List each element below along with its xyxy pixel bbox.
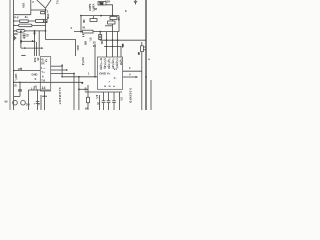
- capacitor C9: [112, 92, 116, 110]
- resistor R7: [108, 21, 115, 24]
- wire mid-left vertical: [20, 31, 22, 48]
- svg-text:38: 38: [36, 58, 40, 61]
- node mid 73.5: [73, 73, 75, 75]
- wire vertical x88: [87, 85, 89, 97]
- wire mid rail 70 left: [14, 69, 41, 71]
- node rail82 end: [81, 82, 83, 84]
- svg-text:120¾: 120¾: [14, 74, 18, 81]
- wire vertical x151: [150, 80, 152, 110]
- node bus x117.5: [117, 39, 119, 41]
- svg-text:2E: 2E: [100, 41, 104, 44]
- capacitor C1: [13, 36, 16, 40]
- diode D1: [41, 12, 45, 14]
- border left outer line: [9, 0, 11, 110]
- capacitor C8: [107, 92, 111, 110]
- resistor R8: [83, 30, 94, 33]
- resistor R9: [87, 97, 90, 102]
- transistor Q1: [13, 100, 18, 105]
- svg-text:14: 14: [42, 86, 46, 90]
- svg-text:Y-: Y-: [114, 76, 117, 80]
- svg-text:25: 25: [25, 34, 29, 37]
- wire bottom rail 82: [14, 81, 83, 83]
- svg-text:2E: 2E: [97, 102, 100, 106]
- node bus x112: [112, 39, 114, 41]
- wire stub mark55: [21, 54, 25, 56]
- resistor R3: [19, 24, 33, 27]
- svg-text:o&: o&: [117, 17, 121, 21]
- wire bus right: [100, 39, 145, 42]
- svg-text:W8: W8: [84, 41, 88, 46]
- svg-text:GND V+: GND V+: [99, 72, 111, 76]
- svg-text:¶¾§¶8¾: ¶¾§¶8¾: [115, 58, 119, 69]
- wire pin x112: [112, 32, 114, 57]
- svg-text:30: 30: [93, 41, 96, 45]
- resistor R6: [110, 16, 117, 19]
- node pot wiper: [34, 30, 36, 32]
- node x20 bottom rail: [19, 82, 21, 84]
- node row3 x45.5: [45, 30, 47, 32]
- node U2 lead junction: [44, 95, 46, 97]
- wire bottom-left stub: [14, 95, 20, 97]
- capacitor C4: [36, 102, 40, 104]
- wire mid-left branch: [21, 40, 35, 42]
- wire tick b: [82, 36, 84, 38]
- wire vertical x112.5 lower: [112, 16, 114, 32]
- wire mid rail 70 right: [51, 69, 67, 71]
- svg-text:S: S: [35, 77, 37, 81]
- node x81 top: [80, 15, 82, 17]
- wire rail 31.6 right: [74, 31, 119, 33]
- wire stub x21: [20, 68, 22, 71]
- wire vertical x34: [34, 31, 36, 56]
- resistor R4: [98, 2, 106, 5]
- svg-text:L R L: L R L: [31, 87, 38, 91]
- wire bottom rail 92: [85, 91, 122, 93]
- wire bottom rail 90: [28, 89, 50, 91]
- node border rail82: [13, 82, 15, 84]
- svg-text:¾¶§¾8¶: ¾¶§¾8¶: [111, 58, 115, 69]
- svg-text:0.1: 0.1: [56, 1, 60, 5]
- diode D2: [43, 20, 47, 23]
- wire resistor row 3: [14, 30, 46, 32]
- node border row3: [13, 30, 15, 32]
- svg-text:V1H: V1H: [105, 0, 110, 3]
- wire vertical x38.8: [38, 31, 40, 56]
- wire vertical x41: [40, 95, 42, 110]
- wire rail48 end arrow: [41, 47, 43, 49]
- wire vertical x119: [118, 16, 120, 32]
- svg-text:§¾¶¾8§: §¾¶¾8§: [103, 58, 107, 69]
- svg-text:¾¶: ¾¶: [100, 1, 104, 5]
- wire stub under R7: [105, 25, 112, 27]
- wire vertical x121: [120, 46, 122, 57]
- wire mid rail 73.5: [51, 73, 74, 75]
- capacitor C2: [23, 34, 26, 39]
- wire top rail right: [81, 15, 119, 17]
- svg-text:NO¾8: NO¾8: [81, 58, 85, 66]
- IC U4 box: [40, 57, 50, 91]
- wire vertical x76.7: [73, 74, 75, 111]
- wire mid rail 77: [62, 76, 97, 78]
- wire U2 lead: [43, 91, 45, 110]
- wire bottom-left cap leg: [19, 82, 21, 96]
- op-amp U1: [37, 0, 51, 8]
- node x82 on rail 77: [78, 76, 80, 78]
- svg-text:62A: 62A: [22, 3, 26, 8]
- svg-text:N™¾§¶8: N™¾§¶8: [99, 58, 103, 70]
- transistor Q2: [21, 100, 26, 105]
- resistor R1: [20, 20, 29, 23]
- node border rail70: [13, 70, 15, 72]
- capacitor C5: [99, 32, 101, 35]
- node x34 junction: [34, 41, 36, 43]
- node op-amp output: [45, 9, 47, 11]
- svg-text:X: X: [46, 20, 48, 24]
- polarity mark: [138, 52, 140, 55]
- wire top feedback horizontal: [31, 9, 46, 11]
- svg-text:+|: +|: [120, 45, 123, 49]
- wire stub 89: [79, 88, 88, 90]
- svg-text:¾8: ¾8: [41, 79, 45, 83]
- svg-text:5K: 5K: [19, 40, 23, 43]
- svg-text:Y+: Y+: [42, 70, 46, 74]
- wire vertical x36.6: [36, 42, 38, 56]
- svg-text:8s: 8s: [25, 15, 28, 19]
- wire vertical x81: [80, 16, 82, 32]
- node x100 rail31.6: [99, 31, 101, 33]
- svg-text:DR: DR: [26, 103, 30, 107]
- wire vertical x95: [94, 44, 96, 77]
- svg-text:0.013MFD: 0.013MFD: [128, 88, 132, 103]
- node border row2: [13, 25, 15, 27]
- border left inner line: [13, 0, 15, 110]
- wire vertical x79.1: [78, 77, 80, 110]
- node x112.5 top: [112, 15, 114, 17]
- svg-text:¾§¾¶§8: ¾§¾¶§8: [107, 58, 111, 69]
- capacitor C6: [141, 46, 144, 52]
- capacitor C7: [102, 92, 106, 110]
- svg-text:P 6°: P 6°: [14, 15, 19, 19]
- svg-text:170: 170: [18, 67, 23, 71]
- svg-text:¥0: ¥0: [5, 100, 8, 104]
- node x79 bottom: [78, 88, 80, 90]
- wire top feedback vertical: [30, 0, 32, 15]
- wire bus mid: [46, 40, 76, 56]
- wire pin x106.5: [106, 32, 108, 57]
- node oval tap: [20, 30, 22, 32]
- node rail48: [24, 47, 26, 49]
- svg-text:¾§¶8: ¾§¶8: [119, 58, 123, 65]
- wire vertical x99.4: [98, 95, 100, 110]
- connector J1: [122, 44, 124, 48]
- wire vertical x37.6: [37, 90, 39, 110]
- node bus x106.5: [106, 39, 108, 41]
- wire vertical x119.5: [119, 92, 121, 110]
- svg-text:PNE: PNE: [46, 14, 50, 20]
- wire R5 stub: [93, 16, 95, 19]
- node x95 rail77: [94, 76, 96, 78]
- wire left top rail: [14, 14, 31, 16]
- svg-text:GND: GND: [32, 72, 38, 76]
- svg-text:3E: 3E: [93, 44, 96, 48]
- wire vertical x141.5: [141, 42, 143, 110]
- capacitor C3: [18, 90, 22, 91]
- node border rail77: [145, 76, 147, 78]
- antenna symbol: [134, 0, 137, 5]
- wire vertical x62: [61, 66, 63, 77]
- svg-text:68K: 68K: [13, 32, 18, 36]
- wire pin x117.5: [117, 32, 119, 57]
- node x62 on rail 77: [61, 76, 63, 78]
- wire tick a: [82, 34, 84, 36]
- wire R4 to x112.5: [106, 5, 113, 16]
- svg-text:9B: 9B: [82, 20, 86, 23]
- svg-text:ELEMENT: ELEMENT: [58, 88, 62, 105]
- wire resistor row 1: [14, 20, 46, 22]
- wire rail 77 right: [123, 76, 137, 78]
- node rail46 x106.5: [106, 46, 108, 48]
- node x101 top: [100, 15, 102, 17]
- node border row1: [13, 20, 15, 22]
- wire vertical x28.4: [27, 90, 29, 110]
- wire resistor row 2: [14, 24, 46, 26]
- wire op-amp output vertical: [45, 8, 47, 39]
- svg-text:38: 38: [94, 7, 97, 11]
- svg-text:1 +: 1 +: [41, 66, 45, 70]
- node rail46 x112: [112, 46, 114, 48]
- wire mid rail 66: [51, 65, 62, 67]
- wire rail 46.4: [104, 45, 121, 47]
- svg-text:Rd1: Rd1: [76, 46, 80, 52]
- inductor L1: [16, 29, 25, 32]
- resistor R5: [90, 19, 97, 22]
- node x81 bottom: [80, 31, 82, 33]
- border right line: [145, 0, 147, 110]
- resistor R2: [36, 20, 44, 23]
- IC U3 box: [97, 57, 122, 89]
- wire rail 71.2 right: [123, 70, 142, 72]
- wire rail 48: [21, 47, 43, 49]
- wire pot wiper arrow: [33, 33, 35, 37]
